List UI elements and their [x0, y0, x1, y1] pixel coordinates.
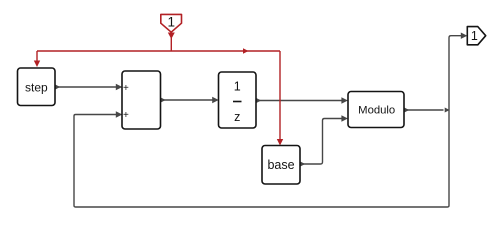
svg-text:z: z	[234, 110, 240, 124]
svg-text:1: 1	[234, 80, 241, 94]
svg-text:1: 1	[471, 29, 478, 43]
svg-text:+: +	[123, 110, 129, 121]
step block	[18, 68, 56, 106]
svg-text:step: step	[25, 81, 48, 95]
wire base to Modulo input 2	[300, 115, 348, 166]
wire junction up to out port	[449, 33, 467, 111]
Modulo block	[348, 92, 404, 128]
input port In1 (red pentagon)	[161, 14, 182, 32]
svg-text:base: base	[267, 158, 294, 172]
wire unit delay to Modulo input 1	[256, 97, 348, 103]
svg-text:+: +	[123, 83, 129, 94]
output port Out1 (pentagon)	[467, 27, 485, 45]
feedback wire junction to sum input 2	[74, 110, 449, 207]
svg-text:1: 1	[167, 15, 175, 30]
base block	[262, 146, 300, 185]
red wire from In1 port down	[168, 31, 175, 51]
unit delay block 1/z	[219, 72, 257, 128]
wire sum to unit delay	[161, 97, 219, 103]
wire Modulo output to branch junction	[404, 107, 450, 112]
wire step to sum	[55, 84, 122, 90]
red wire drop to base	[277, 51, 283, 146]
red wire drop to step	[34, 51, 40, 67]
sum block	[122, 71, 161, 129]
svg-text:Modulo: Modulo	[358, 105, 395, 117]
red wire horizontal trunk	[37, 48, 280, 53]
